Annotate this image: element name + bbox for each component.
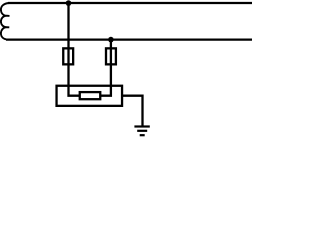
node B: junction dot on bottom conductor — [108, 37, 114, 43]
wire: drop from bottom conductor through fuse F2 into arrester box, to resistor right lead — [100, 40, 111, 96]
ground: earth symbol bar 3 — [140, 134, 145, 136]
fuse F2 — [106, 48, 116, 64]
resistor R1 inside arrester — [80, 92, 101, 99]
ground: earth symbol bar 2 — [137, 130, 147, 132]
transformer winding L1 (source coil) — [1, 3, 10, 40]
wire: drop from top conductor through fuse F1 into arrester box, to resistor left lead — [69, 3, 81, 96]
wire: earthing conductor from arrester box to ground — [122, 96, 142, 127]
fuse F1 — [63, 48, 73, 64]
wire: bottom neutral conductor — [6, 38, 252, 40]
surge arrester U1: enclosure box — [57, 86, 123, 106]
node A: junction dot on top conductor — [66, 0, 72, 6]
wire: top phase conductor — [8, 2, 252, 4]
ground: earth symbol bar 1 — [134, 125, 149, 127]
